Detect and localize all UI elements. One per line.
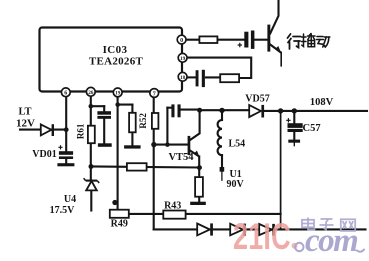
svg-text:C57: C57 — [303, 123, 321, 134]
svg-text:21IC: 21IC — [233, 215, 291, 257]
svg-text:19: 19 — [180, 56, 186, 62]
svg-text:L54: L54 — [229, 139, 246, 150]
svg-text:TEA2026T: TEA2026T — [89, 56, 144, 68]
svg-text:0: 0 — [180, 38, 183, 44]
svg-text:VD01: VD01 — [32, 149, 56, 160]
svg-text:com: com — [305, 223, 358, 259]
svg-text:7: 7 — [153, 91, 156, 97]
svg-text:19: 19 — [115, 91, 121, 97]
svg-text:U4: U4 — [64, 194, 76, 205]
svg-text:6: 6 — [64, 91, 67, 97]
svg-text:R49: R49 — [111, 219, 128, 230]
svg-text:17.5V: 17.5V — [50, 205, 76, 216]
svg-text:VD57: VD57 — [245, 94, 269, 105]
svg-text:26: 26 — [88, 90, 94, 96]
svg-text:R43: R43 — [164, 201, 181, 212]
svg-text:R52: R52 — [138, 113, 148, 129]
svg-text:VT54: VT54 — [168, 152, 194, 163]
svg-text:IC03: IC03 — [103, 44, 128, 56]
svg-text:18: 18 — [180, 75, 186, 81]
svg-text:90V: 90V — [227, 179, 245, 190]
svg-text:108V: 108V — [310, 97, 334, 108]
svg-text:LT: LT — [18, 107, 31, 118]
svg-text:R61: R61 — [76, 123, 86, 139]
svg-text:12V: 12V — [16, 118, 35, 130]
